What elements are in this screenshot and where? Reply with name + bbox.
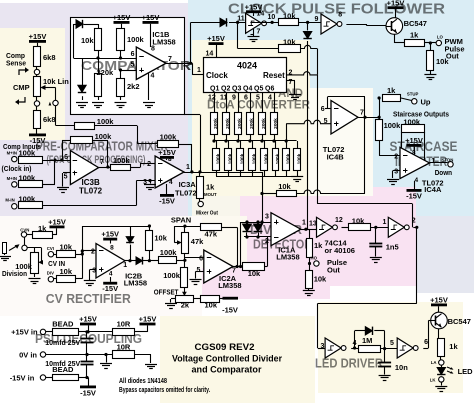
svg-text:Mixer Out: Mixer Out — [196, 211, 218, 217]
svg-text:DIV: DIV — [47, 271, 54, 276]
svg-text:-15V: -15V — [80, 389, 96, 398]
svg-text:Down: Down — [435, 168, 453, 177]
svg-text:47k: 47k — [191, 237, 204, 246]
svg-text:Bypass capacitors omitted for: Bypass capacitors omitted for clarity. — [119, 385, 210, 394]
svg-text:3: 3 — [265, 214, 269, 221]
svg-text:10mfd 25V: 10mfd 25V — [45, 340, 80, 347]
svg-text:-15V in: -15V in — [10, 374, 35, 383]
svg-text:10k: 10k — [248, 269, 261, 278]
svg-text:BEAD: BEAD — [52, 365, 74, 374]
svg-text:IC4B: IC4B — [327, 153, 345, 162]
svg-text:Up: Up — [421, 98, 431, 107]
svg-text:CMP: CMP — [13, 83, 30, 92]
svg-text:10k: 10k — [154, 234, 167, 243]
svg-text:6: 6 — [131, 51, 135, 58]
svg-text:3: 3 — [394, 169, 398, 176]
svg-text:IC4A: IC4A — [424, 185, 442, 194]
svg-text:1k: 1k — [449, 342, 458, 351]
svg-text:10k: 10k — [352, 217, 365, 226]
svg-text:+15V: +15V — [387, 0, 405, 7]
svg-text:Staircase Outputs: Staircase Outputs — [393, 110, 449, 119]
svg-text:14: 14 — [257, 11, 265, 18]
svg-text:7: 7 — [257, 29, 261, 36]
svg-text:1k: 1k — [387, 86, 396, 95]
svg-text:100k: 100k — [95, 132, 113, 141]
svg-text:100k: 100k — [19, 195, 37, 204]
svg-text:10k: 10k — [436, 57, 449, 66]
svg-text:4: 4 — [151, 72, 155, 79]
svg-text:100k: 100k — [160, 133, 178, 142]
svg-text:10k: 10k — [205, 301, 218, 310]
svg-text:LM358: LM358 — [276, 253, 299, 262]
svg-text:1k: 1k — [410, 31, 419, 40]
svg-text:6: 6 — [199, 256, 203, 263]
svg-text:9: 9 — [315, 16, 319, 23]
svg-text:8: 8 — [151, 46, 155, 53]
svg-text:10k: 10k — [314, 275, 327, 284]
svg-text:100k: 100k — [19, 174, 37, 183]
svg-text:11: 11 — [237, 16, 245, 23]
svg-text:M-IN: M-IN — [5, 198, 14, 203]
svg-text:-15V: -15V — [159, 196, 175, 205]
svg-text:TL072: TL072 — [79, 187, 103, 196]
svg-text:2k: 2k — [181, 301, 190, 310]
svg-text:M+IN: M+IN — [7, 151, 17, 156]
svg-text:1: 1 — [186, 164, 190, 171]
svg-text:10R: 10R — [117, 343, 131, 352]
svg-text:1k: 1k — [38, 224, 47, 233]
svg-text:100k: 100k — [252, 153, 258, 164]
svg-text:6: 6 — [424, 339, 428, 346]
svg-text:5: 5 — [256, 95, 260, 102]
svg-text:10k Lin: 10k Lin — [43, 77, 69, 86]
svg-text:+15V: +15V — [139, 315, 157, 324]
svg-text:Q5: Q5 — [254, 86, 263, 93]
svg-text:1: 1 — [383, 219, 387, 226]
svg-text:5: 5 — [390, 340, 394, 347]
svg-text:and Comparator: and Comparator — [192, 365, 262, 376]
svg-text:100k: 100k — [97, 117, 115, 126]
svg-text:Sense: Sense — [6, 59, 26, 68]
svg-text:8: 8 — [412, 150, 416, 157]
svg-text:4: 4 — [415, 177, 419, 184]
svg-text:+15V: +15V — [113, 13, 131, 22]
svg-text:4: 4 — [109, 271, 113, 278]
svg-text:10k: 10k — [283, 38, 296, 47]
svg-text:Q6: Q6 — [265, 86, 274, 93]
svg-text:2: 2 — [91, 249, 95, 256]
svg-text:+15V: +15V — [430, 296, 448, 305]
svg-text:12: 12 — [335, 217, 343, 224]
svg-text:or 40106: or 40106 — [325, 246, 355, 255]
svg-text:1k: 1k — [206, 183, 215, 192]
svg-text:10R: 10R — [117, 320, 131, 329]
svg-text:10k: 10k — [60, 243, 73, 252]
svg-text:1k: 1k — [314, 241, 323, 250]
svg-text:+15V: +15V — [48, 218, 66, 227]
svg-text:Q4: Q4 — [243, 86, 252, 93]
svg-text:BC547: BC547 — [448, 317, 471, 326]
svg-text:LED: LED — [458, 367, 474, 376]
svg-text:STUP: STUP — [407, 92, 419, 97]
svg-text:3: 3 — [320, 343, 324, 350]
svg-text:7: 7 — [168, 56, 172, 63]
svg-text:10k: 10k — [60, 267, 73, 276]
svg-text:7: 7 — [360, 110, 364, 117]
svg-text:8: 8 — [110, 245, 114, 252]
svg-text:Voltage Controlled Divider: Voltage Controlled Divider — [172, 354, 282, 365]
svg-text:2: 2 — [147, 161, 151, 168]
svg-text:2k2: 2k2 — [127, 82, 140, 91]
svg-text:-15V: -15V — [102, 284, 118, 293]
svg-text:10: 10 — [268, 14, 276, 21]
svg-text:LM358: LM358 — [218, 281, 241, 290]
svg-text:100k: 100k — [403, 118, 421, 127]
svg-text:200k: 200k — [213, 118, 219, 129]
svg-text:HO: HO — [311, 255, 318, 260]
svg-text:2: 2 — [394, 154, 398, 161]
svg-text:200k: 200k — [225, 118, 231, 129]
svg-text:10k: 10k — [278, 182, 291, 191]
svg-text:6k8: 6k8 — [43, 53, 56, 62]
svg-text:7: 7 — [100, 159, 104, 166]
svg-text:14: 14 — [206, 51, 214, 58]
svg-text:1: 1 — [431, 158, 435, 165]
svg-text:4: 4 — [169, 179, 173, 186]
svg-text:Reset: Reset — [263, 71, 285, 80]
svg-text:200k: 200k — [237, 118, 243, 129]
svg-text:0V in: 0V in — [19, 351, 37, 360]
svg-text:47k: 47k — [205, 229, 218, 238]
svg-text:TL072: TL072 — [175, 189, 197, 198]
svg-text:1M: 1M — [362, 336, 372, 345]
svg-text:100k: 100k — [275, 153, 281, 164]
svg-text:200k: 200k — [261, 118, 267, 129]
svg-text:Q2: Q2 — [221, 86, 230, 93]
svg-text:LO: LO — [437, 35, 444, 40]
svg-text:8: 8 — [168, 156, 172, 163]
svg-text:All diodes 1N4148: All diodes 1N4148 — [119, 376, 167, 385]
svg-text:9: 9 — [232, 95, 236, 102]
svg-text:200k: 200k — [273, 118, 279, 129]
svg-text:1: 1 — [302, 220, 306, 227]
svg-text:+15V: +15V — [207, 34, 225, 43]
svg-text:Q1: Q1 — [210, 86, 219, 93]
svg-text:3: 3 — [92, 268, 96, 275]
svg-text:Q3: Q3 — [232, 86, 241, 93]
svg-text:100k: 100k — [384, 121, 402, 130]
svg-text:CGS09 REV2: CGS09 REV2 — [195, 342, 255, 353]
svg-text:Out: Out — [327, 266, 340, 275]
svg-text:100k: 100k — [19, 149, 37, 158]
svg-text:10k: 10k — [81, 36, 94, 45]
svg-text:M+IN: M+IN — [7, 176, 17, 181]
svg-text:+15V: +15V — [405, 136, 423, 145]
svg-text:+15V: +15V — [79, 315, 97, 324]
svg-text:Clock: Clock — [206, 71, 228, 80]
svg-text:MOUT: MOUT — [204, 192, 217, 197]
svg-text:-15V: -15V — [406, 191, 422, 200]
svg-text:6: 6 — [64, 154, 68, 161]
svg-text:+15V: +15V — [158, 148, 176, 157]
svg-text:100k: 100k — [163, 271, 181, 280]
svg-text:10n: 10n — [395, 363, 408, 372]
svg-text:100k: 100k — [216, 153, 222, 164]
svg-text:6: 6 — [321, 106, 325, 113]
svg-text:CV RECTIFIER: CV RECTIFIER — [46, 292, 131, 306]
svg-text:Division: Division — [2, 269, 27, 278]
svg-text:5: 5 — [324, 118, 328, 125]
svg-text:6: 6 — [244, 95, 248, 102]
svg-text:LK: LK — [430, 378, 437, 383]
svg-text:100k: 100k — [127, 35, 145, 44]
svg-text:SPAN: SPAN — [171, 216, 191, 225]
svg-text:4: 4 — [268, 95, 272, 102]
svg-text:1: 1 — [197, 67, 201, 74]
svg-text:(Clock in): (Clock in) — [2, 164, 32, 173]
svg-text:5: 5 — [131, 62, 135, 69]
svg-text:+15V: +15V — [101, 230, 119, 239]
svg-text:BC547: BC547 — [404, 19, 427, 28]
svg-text:100k: 100k — [240, 153, 246, 164]
svg-text:100k: 100k — [297, 153, 303, 164]
svg-text:5: 5 — [196, 267, 200, 274]
svg-text:100k: 100k — [286, 153, 292, 164]
svg-text:LM358: LM358 — [152, 38, 175, 47]
svg-text:220k: 220k — [97, 68, 115, 77]
svg-text:8: 8 — [338, 11, 342, 18]
svg-text:-15V: -15V — [222, 306, 238, 315]
svg-text:LA: LA — [431, 360, 437, 365]
svg-text:BEAD: BEAD — [52, 320, 74, 329]
svg-text:LM358: LM358 — [124, 279, 147, 288]
svg-text:2: 2 — [265, 238, 269, 245]
svg-text:CVI: CVI — [47, 246, 54, 251]
svg-text:1n5: 1n5 — [386, 243, 399, 252]
svg-text:+15V: +15V — [29, 32, 47, 41]
svg-text:5: 5 — [64, 174, 68, 181]
svg-text:4024: 4024 — [237, 61, 257, 71]
svg-text:+15V in: +15V in — [11, 328, 38, 337]
svg-text:100k: 100k — [113, 156, 131, 165]
svg-text:200k: 200k — [249, 118, 255, 129]
svg-text:10k: 10k — [283, 12, 296, 21]
svg-text:13: 13 — [309, 221, 317, 228]
svg-text:1: 1 — [123, 262, 127, 269]
svg-text:100k: 100k — [228, 153, 234, 164]
svg-text:100k: 100k — [160, 248, 178, 257]
svg-text:+15V: +15V — [142, 13, 160, 22]
svg-text:6k8: 6k8 — [43, 115, 56, 124]
svg-text:100k: 100k — [264, 153, 270, 164]
